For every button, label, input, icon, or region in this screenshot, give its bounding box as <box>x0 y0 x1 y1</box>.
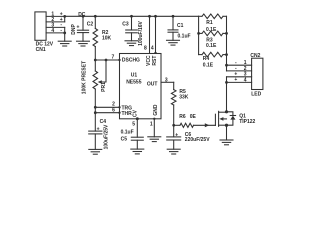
svg-text:+: + <box>77 24 80 30</box>
CN1 polarity signs <box>60 11 63 33</box>
svg-text:2: 2 <box>112 101 115 107</box>
svg-text:THR: THR <box>122 111 133 117</box>
svg-text:C4: C4 <box>100 119 107 125</box>
svg-text:3: 3 <box>165 78 168 84</box>
CN2 pin 2 wire <box>227 70 252 72</box>
svg-text:DSCHG: DSCHG <box>122 58 140 64</box>
svg-text:CV: CV <box>133 109 139 117</box>
wire TRG pin 2 <box>95 106 119 108</box>
svg-text:U1: U1 <box>131 73 138 79</box>
ground at C6 <box>167 148 180 150</box>
svg-text:NE555: NE555 <box>126 80 142 86</box>
svg-text:C1: C1 <box>177 23 184 29</box>
wire Q1 source to ground <box>226 125 228 140</box>
svg-text:+: + <box>175 132 178 138</box>
CN2 pin 1 wire <box>227 64 252 66</box>
svg-text:1: 1 <box>150 121 153 127</box>
CN1 pin 4 wire <box>46 32 65 34</box>
svg-text:C5: C5 <box>121 137 128 143</box>
resistor R2 10K <box>94 15 97 18</box>
wire left bus of resistor bank <box>198 16 200 54</box>
CN2 polarity signs <box>234 60 237 83</box>
resistor R6 0E <box>174 124 180 126</box>
IC U1 NE555 body <box>120 54 162 119</box>
svg-text:100uF/25V: 100uF/25V <box>104 124 110 149</box>
wire RST riser pin 4 <box>154 15 157 18</box>
resistor R1 0.1E <box>199 15 202 17</box>
svg-text:R4: R4 <box>203 56 210 62</box>
node R5/R6/C6 junction <box>172 124 175 127</box>
svg-text:4: 4 <box>51 28 54 34</box>
svg-text:CN2: CN2 <box>250 53 260 59</box>
resistor R5 33K <box>173 82 175 89</box>
CN1 pin 3 wire <box>46 26 65 28</box>
CN2 pin 4 wire <box>227 81 252 83</box>
svg-text:CN1: CN1 <box>36 47 46 53</box>
node LED row4 junction <box>225 81 228 84</box>
CN2 pin 3 wire <box>227 76 252 78</box>
resistor R3 0.1E <box>197 32 200 35</box>
wire THR pin 6 <box>95 112 119 114</box>
svg-text:4: 4 <box>151 45 154 51</box>
wire R5 to junction and C6 <box>173 105 175 137</box>
capacitor C3 <box>130 15 133 18</box>
svg-text:C2: C2 <box>87 22 94 28</box>
ground at CN1 <box>64 33 66 41</box>
connector CN1 <box>35 12 46 40</box>
wire PR1 to THR/C4 <box>94 89 96 131</box>
svg-text:+: + <box>234 77 237 83</box>
wire VCC riser pin 8 <box>148 15 151 18</box>
svg-text:220uF/25V: 220uF/25V <box>185 137 210 143</box>
svg-text:0.1uF: 0.1uF <box>121 130 134 136</box>
svg-text:8: 8 <box>144 45 147 51</box>
ground at Q1 <box>220 139 233 141</box>
transistor Q1 TIP122 <box>214 114 216 125</box>
wire GND pin 1 <box>153 119 155 137</box>
CN1 pin 1 wire <box>46 15 65 17</box>
ground at C1 <box>167 39 180 41</box>
potentiometer PR1 100K PRESET <box>93 71 98 89</box>
svg-text:GND: GND <box>153 104 159 116</box>
capacitor C6 220uF/25V <box>167 136 181 138</box>
PR1 wiper <box>102 60 107 82</box>
svg-text:OUT: OUT <box>147 82 158 88</box>
svg-text:4: 4 <box>244 77 247 83</box>
svg-text:0.1uF: 0.1uF <box>178 33 191 39</box>
svg-text:6: 6 <box>112 108 115 114</box>
capacitor C4 100uF/25V <box>89 130 102 132</box>
node CN1 plus junction <box>63 15 66 18</box>
svg-text:0.1E: 0.1E <box>206 43 217 49</box>
svg-text:33K: 33K <box>179 95 189 101</box>
wire OUT pin 3 <box>161 81 174 83</box>
svg-text:10K: 10K <box>102 36 112 42</box>
svg-text:TIP122: TIP122 <box>239 119 255 125</box>
wire riser pins 1-2 <box>64 16 66 22</box>
capacitor C2 DNP <box>82 15 85 18</box>
svg-text:+: + <box>97 127 100 133</box>
svg-text:R6: R6 <box>179 114 186 120</box>
resistor R4 0.1E <box>199 54 202 56</box>
svg-text:PR1: PR1 <box>101 82 107 92</box>
wire DC rail <box>65 15 199 17</box>
wire right bus lower to Q1 drain <box>226 77 228 112</box>
capacitor C5 0.1uF <box>131 136 143 138</box>
svg-text:100K PRESET: 100K PRESET <box>82 61 88 94</box>
node CN1 minus junction <box>63 32 66 35</box>
wire right bus upper <box>226 16 228 71</box>
wire riser pins 3-4 <box>64 27 66 33</box>
Q1 body diode <box>227 112 233 125</box>
svg-text:R1: R1 <box>206 20 213 26</box>
ground at C4 <box>89 148 102 150</box>
wire CV pin 5 <box>136 119 138 137</box>
svg-text:0E: 0E <box>190 114 197 120</box>
svg-text:7: 7 <box>112 55 115 61</box>
ground at C3 <box>125 40 138 42</box>
signal arrow on gate wire <box>205 123 210 127</box>
connector CN2 <box>252 58 263 89</box>
ground at C5 <box>131 148 144 150</box>
wire R2 to DSCHG node <box>94 47 96 72</box>
CN1 pin numbers 1-4 <box>51 11 54 34</box>
node LED row1 junction <box>225 64 228 67</box>
svg-text:LED: LED <box>251 91 261 97</box>
svg-text:C3: C3 <box>122 21 129 27</box>
CN2 pin numbers 1-4 <box>244 60 247 83</box>
svg-text:DNP: DNP <box>71 23 77 34</box>
CN1 pin 2 wire <box>46 21 65 23</box>
ground at C2 <box>77 40 90 42</box>
svg-text:0.1E: 0.1E <box>203 63 214 69</box>
svg-text:100uF/16V: 100uF/16V <box>138 20 144 45</box>
ground at U1 GND <box>148 136 161 138</box>
wire DSCHG pin 7 <box>95 59 119 61</box>
svg-text:RST: RST <box>152 56 158 66</box>
capacitor C1 <box>172 15 175 18</box>
svg-text:5: 5 <box>132 121 135 127</box>
